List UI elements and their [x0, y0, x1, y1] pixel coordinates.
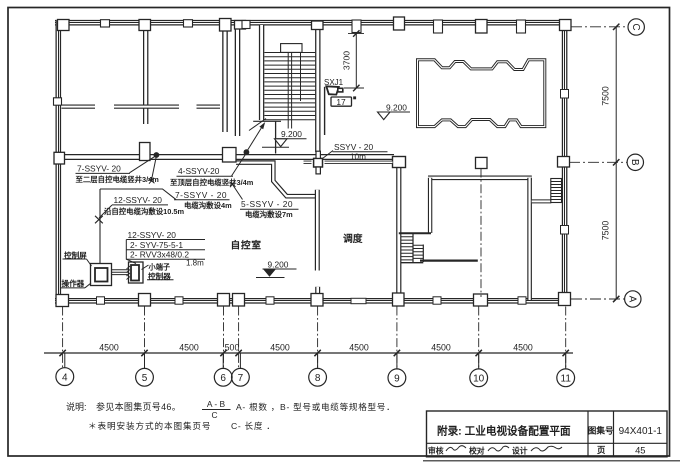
row B extension line	[569, 161, 627, 163]
stairwell left wall	[259, 25, 264, 120]
svg-text:9.200: 9.200	[281, 129, 302, 139]
junction box grid9 on corridor wall	[393, 157, 406, 168]
room-A right wall	[527, 178, 532, 300]
column grid4 top corner	[58, 20, 70, 31]
window mullion top wall bay4-5	[101, 20, 110, 27]
terminal box inner	[131, 265, 139, 281]
right exterior wall	[562, 20, 568, 304]
junction dot node grid7	[244, 149, 250, 155]
svg-text:7: 7	[238, 373, 244, 384]
stair hall top wall	[399, 232, 431, 234]
dispatch room left wall	[315, 190, 320, 271]
svg-text:自控室: 自控室	[231, 239, 262, 252]
column grid11 bottom corner	[559, 293, 571, 306]
interior wall grid5	[143, 25, 148, 124]
svg-text:SSYV - 20: SSYV - 20	[334, 142, 373, 152]
svg-text:4500: 4500	[431, 343, 451, 353]
svg-text:7500: 7500	[601, 86, 611, 106]
svg-text:10: 10	[473, 374, 485, 385]
svg-text:9: 9	[394, 374, 400, 385]
grid bubble 11	[557, 369, 575, 387]
cable run 10m fitting to grid9 box	[325, 161, 393, 164]
stairwell right wall grid8	[315, 25, 320, 152]
svg-text:4500: 4500	[270, 343, 290, 353]
control panel inner box	[95, 268, 108, 282]
svg-text:调度: 调度	[343, 232, 363, 245]
signature squiggles	[446, 446, 466, 451]
column grid5 bottom wall	[139, 294, 151, 307]
svg-text:4: 4	[62, 372, 68, 383]
svg-text:7-SSYV - 20: 7-SSYV - 20	[175, 190, 227, 200]
svg-text::: :	[84, 402, 87, 412]
main staircase treads	[264, 53, 315, 120]
room-A left wall	[428, 178, 432, 233]
title block frame	[427, 411, 668, 457]
drop line below dot1	[152, 156, 157, 180]
svg-text:4500: 4500	[179, 343, 199, 353]
dispatch room NW chamfered wall	[236, 163, 315, 197]
x mark on trench cable	[95, 216, 103, 224]
label underlines	[76, 172, 131, 174]
svg-text:沿自控电缆沟敷设10.5m: 沿自控电缆沟敷设10.5m	[104, 207, 185, 216]
interior wall grid6	[222, 25, 228, 132]
fraction bar	[202, 409, 231, 411]
svg-text:页: 页	[597, 445, 606, 455]
main staircase stringers	[287, 52, 289, 128]
dimension ticks bottom	[59, 350, 569, 356]
grid bubble 5	[136, 368, 154, 386]
svg-text:设计: 设计	[512, 445, 528, 455]
window mullion top wall bay5-6	[184, 20, 193, 27]
control panel outer box	[91, 264, 112, 286]
grid bubble 8	[309, 368, 327, 386]
internal stair bottom edge	[401, 262, 424, 264]
svg-text:9.200: 9.200	[268, 259, 289, 269]
elevation marker machine room 9.200	[380, 111, 411, 113]
svg-text:94X401-1: 94X401-1	[619, 426, 663, 437]
svg-text:11: 11	[561, 374, 572, 385]
svg-text:A- 根数 ，B- 型号或电缆等规格型号．: A- 根数 ，B- 型号或电缆等规格型号．	[236, 401, 395, 412]
small x mark at 3/4m dot1	[149, 178, 155, 184]
internal stair block A treads	[401, 234, 413, 260]
grid stubs to bubbles	[65, 353, 566, 369]
svg-text:附录: 工业电视设备配置平面: 附录: 工业电视设备配置平面	[437, 425, 571, 438]
internal stair block B treads	[413, 245, 423, 258]
column grid6-7 at corridor wall	[223, 148, 237, 163]
pilaster top wall mid 9-10	[434, 20, 443, 33]
svg-text:4-SSYV-20: 4-SSYV-20	[178, 166, 220, 176]
column grid9 bottom wall	[393, 293, 405, 306]
exterior stair hatch at right wall	[551, 179, 562, 203]
svg-text:6: 6	[220, 373, 226, 384]
dispatch room left wall door stub	[315, 287, 320, 303]
machine outline in equipment room	[418, 60, 545, 127]
corridor interior wall	[55, 154, 394, 160]
left exterior wall	[55, 20, 61, 306]
column grid5 top wall	[139, 20, 151, 31]
camera arrow mark	[353, 96, 356, 99]
svg-text:45: 45	[635, 444, 645, 455]
main staircase top landing	[281, 44, 302, 53]
svg-text:8: 8	[315, 373, 321, 384]
main staircase cut diagonal	[249, 119, 266, 131]
bottom wall window ticks	[97, 297, 105, 304]
column grid7 top wall	[235, 21, 246, 30]
right dimension line	[615, 27, 617, 299]
grid10 centerline inside building	[480, 169, 482, 298]
svg-text:5-SSYV - 20: 5-SSYV - 20	[241, 199, 293, 209]
svg-text:审核: 审核	[428, 445, 444, 455]
room-A lower wall at grid line	[420, 260, 478, 262]
leader control panel label top	[87, 259, 92, 266]
svg-text:至顶层自控电缆竖井3/4m: 至顶层自控电缆竖井3/4m	[170, 178, 254, 187]
row A extension line	[571, 298, 624, 300]
grid bubble 9	[388, 369, 406, 387]
svg-text:1.8m: 1.8m	[186, 259, 204, 268]
internal stair divider	[412, 233, 414, 263]
interior wall grid7	[235, 25, 241, 136]
room-A top wall	[428, 176, 532, 181]
right wall column at B	[558, 157, 570, 168]
svg-text:A: A	[626, 296, 637, 303]
connection lines between boxes	[112, 270, 129, 275]
column grid8 top wall	[312, 21, 324, 30]
bottom exterior wall	[55, 298, 570, 304]
svg-text:17: 17	[336, 97, 346, 107]
svg-text:10m: 10m	[350, 152, 366, 161]
svg-text:图集号: 图集号	[588, 425, 614, 436]
leader terminal box label	[142, 265, 149, 270]
row bubble B	[627, 154, 643, 170]
hatch ticks at terminal box	[127, 266, 131, 280]
svg-text:12-SSYV- 20: 12-SSYV- 20	[128, 230, 177, 240]
column grid7 bottom wall	[233, 294, 245, 307]
column grid10 top wall	[476, 20, 488, 34]
column grid6 bottom wall	[218, 294, 230, 307]
svg-text:500: 500	[225, 343, 240, 353]
grid bubble 10	[470, 369, 488, 387]
svg-text:校对: 校对	[469, 445, 485, 455]
leader dot2 to label 4-SSYV	[232, 153, 247, 176]
column grid10 bottom wall	[474, 294, 488, 306]
svg-text:5: 5	[142, 373, 148, 384]
cable stub left of fitting	[304, 161, 312, 164]
svg-text:2- RVV3x48/0.2: 2- RVV3x48/0.2	[130, 250, 189, 260]
camera drop line	[324, 87, 326, 135]
cable trench run horizontal	[100, 189, 176, 200]
column grid9 top wall	[394, 17, 405, 30]
svg-text:12-SSYV- 20: 12-SSYV- 20	[114, 195, 163, 205]
internal stair right edge	[422, 245, 424, 263]
column grid6 top wall	[220, 19, 232, 32]
elevation marker stair 9.200	[277, 138, 307, 140]
leader x to label 12-SSYV	[99, 205, 112, 218]
elevation marker control room 9.200	[263, 268, 297, 270]
leader control panel label bottom	[85, 283, 91, 288]
bottom dimension line	[44, 352, 573, 354]
partition stub walls upper rooms (double line)	[62, 104, 221, 108]
svg-text:操作器: 操作器	[62, 278, 85, 288]
small x mark at 3/4m dot2	[230, 181, 236, 187]
dimension 3700 line	[355, 34, 357, 89]
svg-text:7500: 7500	[601, 221, 611, 241]
column grid5 at corridor wall	[140, 143, 151, 161]
column grid8 bottom wall	[311, 294, 323, 307]
svg-text:7-SSYV- 20: 7-SSYV- 20	[77, 164, 121, 174]
svg-text:4500: 4500	[99, 343, 119, 353]
svg-text:参见本图集页号46。: 参见本图集页号46。	[96, 401, 181, 412]
dimension ticks right	[613, 24, 619, 303]
svg-text:C- 长度 ．: C- 长度 ．	[231, 420, 276, 431]
svg-text:说明: 说明	[66, 401, 84, 412]
camera SXJ1 symbol trapezoid	[326, 86, 339, 94]
column grid4 bottom corner	[56, 295, 69, 307]
svg-text:4500: 4500	[513, 343, 533, 353]
grid bubble 7	[232, 368, 250, 386]
cable trench run vertical to control panel	[99, 189, 101, 263]
cross fitting camera mount grid8 corridor	[314, 158, 323, 167]
junction dot node grid5	[154, 152, 160, 158]
dispatch room right wall grid9	[396, 165, 401, 300]
svg-text:C: C	[630, 23, 641, 30]
grid bubble 4	[56, 368, 74, 386]
leader dot1 to label 7-SSYV	[130, 156, 156, 173]
camera number box 17	[331, 97, 352, 106]
wall stub to exterior stair	[532, 199, 552, 203]
terminal box outer	[129, 262, 144, 283]
row bubble A	[625, 291, 641, 307]
riser arrow to staircase	[246, 125, 263, 153]
window mullion top wall stair bay	[242, 21, 250, 29]
column grid11 top corner	[560, 20, 572, 31]
leader x2 to label 5-SSYV	[233, 185, 243, 200]
row bubble C	[628, 19, 644, 35]
svg-text:电缆沟敷设7m: 电缆沟敷设7m	[245, 210, 293, 219]
main staircase bottom edge	[253, 120, 281, 122]
left wall column at corridor	[54, 152, 65, 164]
svg-text:2- SYV-75-5-1: 2- SYV-75-5-1	[130, 240, 183, 250]
svg-text:至二层自控电缆竖井3/4m: 至二层自控电缆竖井3/4m	[76, 175, 160, 184]
svg-text:B: B	[629, 159, 640, 166]
stair entry wall stub	[275, 121, 277, 153]
pilaster top wall mid 8-9	[352, 20, 361, 33]
svg-text:A - B: A - B	[207, 399, 226, 409]
svg-text:9.200: 9.200	[386, 102, 407, 112]
label bracket for cable stack	[126, 240, 136, 264]
left wall window tick	[54, 98, 62, 105]
grid extension lines to bottom bubbles	[63, 307, 566, 368]
pilaster top wall mid 10-11	[517, 20, 526, 33]
svg-text:SXJ1: SXJ1	[324, 78, 344, 87]
svg-text:4500: 4500	[349, 343, 369, 353]
svg-text:电缆沟敷设4m: 电缆沟敷设4m	[184, 201, 232, 210]
top exterior wall	[55, 20, 570, 26]
row C extension line	[571, 26, 627, 28]
grid bubble 6	[214, 368, 232, 386]
sheet bottom edge line	[423, 460, 680, 462]
column grid10 row-B	[476, 157, 488, 168]
right wall window ticks	[561, 90, 569, 99]
svg-text:C: C	[211, 410, 217, 420]
svg-text:＊表明安装方式的本图集页号: ＊表明安装方式的本图集页号	[88, 420, 211, 431]
svg-text:3700: 3700	[342, 51, 352, 70]
svg-text:控制屏: 控制屏	[64, 250, 87, 260]
svg-text:小端子: 小端子	[148, 263, 171, 272]
